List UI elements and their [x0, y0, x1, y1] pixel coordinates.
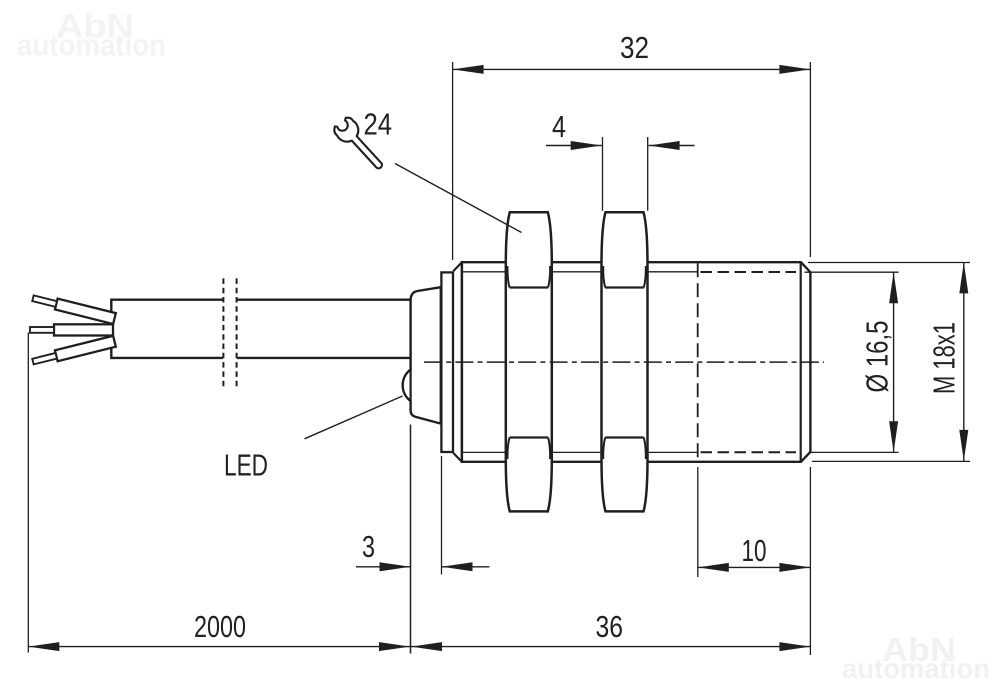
centerline axis	[424, 361, 824, 363]
dimension 2000 and 36 baseline	[28, 333, 810, 656]
LED dome chord line	[410, 370, 412, 402]
dimension dia 16,5	[805, 272, 899, 452]
leader LED	[305, 396, 403, 439]
thread root line bottom	[463, 451, 698, 453]
cable break symbol	[223, 278, 236, 386]
end cap ring	[441, 272, 453, 452]
svg-text:10: 10	[742, 533, 767, 568]
hidden line core bottom	[701, 451, 797, 453]
svg-text:24: 24	[364, 107, 393, 142]
svg-text:M 18x1: M 18x1	[927, 322, 962, 394]
svg-text:2000: 2000	[194, 609, 246, 644]
watermark bottom-right	[842, 631, 990, 684]
wrench icon	[331, 115, 389, 175]
svg-text:32: 32	[620, 30, 649, 65]
chamfer ring left	[453, 262, 462, 462]
svg-text:3: 3	[362, 529, 375, 564]
cable gland with LED dome	[403, 287, 441, 423]
hidden line thread end	[697, 263, 699, 461]
wire 2 (middle)	[30, 324, 113, 335]
thread root line top	[463, 271, 698, 273]
svg-text:Ø 16,5: Ø 16,5	[860, 321, 895, 393]
svg-text:36: 36	[596, 609, 624, 644]
dimension 10	[698, 467, 811, 577]
svg-text:automation: automation	[842, 653, 990, 684]
dimension 3	[356, 425, 490, 654]
hidden line core top	[701, 271, 797, 273]
wire 3 (bottom)	[32, 336, 116, 367]
dimension M 18x1	[808, 262, 970, 461]
barrel body	[462, 262, 811, 462]
dimension 4	[546, 137, 695, 211]
leader wrench to nut	[395, 164, 522, 233]
cable sheath	[111, 299, 411, 360]
svg-text:4: 4	[552, 109, 566, 144]
watermark top-left	[17, 8, 166, 63]
chamfer edge line right	[800, 262, 802, 462]
wire 1 (top)	[32, 293, 116, 324]
dimension 32	[453, 62, 811, 260]
hex nut 1	[506, 212, 552, 511]
svg-text:LED: LED	[224, 448, 268, 483]
svg-text:automation: automation	[17, 28, 166, 63]
hex nut 2	[602, 212, 648, 511]
